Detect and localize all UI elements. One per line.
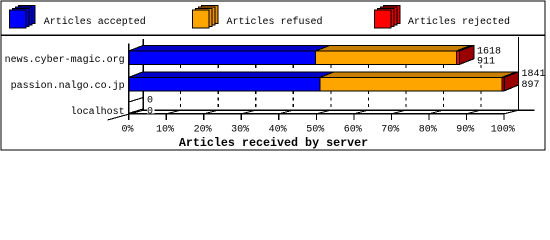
- svg-text:0: 0: [147, 107, 153, 118]
- dashed gridline 50%: [330, 65, 332, 110]
- svg-text:1841: 1841: [522, 69, 546, 80]
- dashed gridline 10%: [180, 65, 182, 110]
- svg-text:0%: 0%: [121, 124, 133, 135]
- svg-text:60%: 60%: [344, 124, 362, 135]
- bar1 blue top face: [129, 45, 330, 51]
- back baseline: [143, 109, 534, 111]
- bar2 red top face: [502, 72, 519, 78]
- dashed gridline 90%: [480, 65, 482, 110]
- tick depth diagonal 10%: [166, 110, 180, 114]
- back y-axis: [142, 39, 144, 110]
- bar1 red side face: [459, 45, 473, 64]
- tick depth diagonal 70%: [391, 110, 405, 114]
- legend separator line: [1, 34, 545, 36]
- svg-text:20%: 20%: [194, 124, 212, 135]
- dashed gridline 80%: [442, 65, 444, 110]
- axis tick 70%: [390, 114, 392, 120]
- bar2 orange front segment: [320, 77, 502, 90]
- dashed gridline 70%: [405, 65, 407, 110]
- svg-text:90%: 90%: [456, 124, 474, 135]
- svg-text:80%: 80%: [419, 124, 437, 135]
- bar1 blue front segment: [129, 51, 316, 64]
- bar2 blue top face: [129, 72, 335, 78]
- bar1 orange front segment: [316, 51, 457, 64]
- tick depth diagonal 50%: [316, 110, 330, 114]
- svg-text:localhost: localhost: [71, 106, 125, 118]
- tick depth diagonal 30%: [241, 110, 255, 114]
- bar1 red front segment: [456, 51, 459, 64]
- svg-text:Articles refused: Articles refused: [227, 16, 323, 28]
- chart border box: [1, 1, 545, 150]
- axis tick 50%: [315, 114, 317, 120]
- bar1 orange top face: [316, 45, 471, 51]
- svg-text:70%: 70%: [381, 124, 399, 135]
- right end diagonal: [504, 110, 518, 114]
- svg-text:Articles accepted: Articles accepted: [44, 16, 146, 28]
- svg-text:10%: 10%: [156, 124, 174, 135]
- svg-text:897: 897: [522, 80, 540, 91]
- front baseline: [129, 113, 504, 115]
- axis tick 10%: [165, 114, 167, 120]
- solid 100% gridline / right wall: [517, 37, 519, 110]
- tick depth diagonal 20%: [204, 110, 218, 114]
- bar2 passion.nalgo.co.jp: [129, 72, 519, 91]
- axis tick 90%: [466, 114, 468, 120]
- axis tick 100%: [503, 114, 505, 120]
- bar1 news.cyber-magic.org: [129, 45, 474, 64]
- bar2 blue front segment: [129, 77, 320, 90]
- tick depth diagonal 40%: [279, 110, 293, 114]
- dashed gridline 40%: [292, 65, 294, 110]
- tick depth diagonal 90%: [467, 110, 481, 114]
- svg-text:50%: 50%: [306, 124, 324, 135]
- axis tick 40%: [278, 114, 280, 120]
- axis tick 20%: [203, 114, 205, 120]
- front y-axis: [128, 44, 130, 114]
- legend cube orange (Articles refused): [193, 6, 219, 29]
- tick depth diagonal 60%: [354, 110, 368, 114]
- bar2 red side face: [504, 72, 518, 91]
- svg-text:100%: 100%: [491, 124, 515, 135]
- axis tick 30%: [240, 114, 242, 120]
- bar2 orange top face: [320, 72, 517, 78]
- dashed gridline 30%: [255, 65, 257, 110]
- tick depth diagonal 80%: [429, 110, 443, 114]
- axis tick 0%: [128, 114, 130, 120]
- legend cube red (Articles rejected): [375, 6, 401, 29]
- white gap behind lower zero: [147, 106, 155, 113]
- svg-text:911: 911: [477, 56, 495, 67]
- axis tick 80%: [428, 114, 430, 120]
- svg-text:30%: 30%: [231, 124, 249, 135]
- svg-text:passion.nalgo.co.jp: passion.nalgo.co.jp: [11, 80, 125, 92]
- svg-text:Articles rejected: Articles rejected: [408, 16, 510, 28]
- dashed gridline 20%: [217, 65, 219, 110]
- svg-text:40%: 40%: [269, 124, 287, 135]
- axis tick 60%: [353, 114, 355, 120]
- svg-text:Articles received by server: Articles received by server: [179, 136, 368, 150]
- svg-text:news.cyber-magic.org: news.cyber-magic.org: [5, 54, 125, 66]
- corner diagonal at origin: [108, 110, 144, 120]
- bar2 red front segment: [502, 77, 504, 90]
- svg-text:0: 0: [147, 96, 153, 107]
- zero-bar localhost (empty parallelogram): [129, 98, 144, 114]
- dashed gridline 60%: [367, 65, 369, 110]
- legend cube blue (Articles accepted): [10, 6, 36, 29]
- bar1 red top face: [456, 45, 473, 51]
